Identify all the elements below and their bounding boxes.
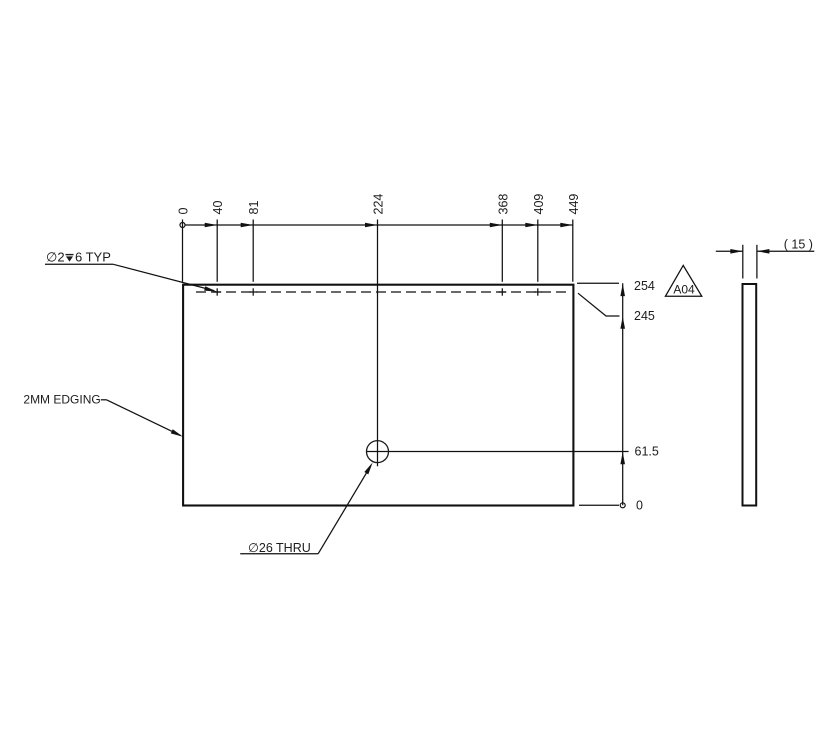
0 reference line — [579, 504, 619, 506]
hole cross at 81 — [249, 288, 257, 295]
arrow at 245 — [620, 316, 625, 329]
extension line / hole centerline 224 — [377, 220, 379, 467]
extension line 409 — [537, 220, 539, 282]
254 reference line — [577, 282, 619, 284]
side thickness dim line left — [716, 250, 743, 252]
arrow at 254 — [620, 284, 625, 297]
top ordinate dimension line — [185, 224, 573, 226]
arrow at 40 — [205, 223, 218, 228]
arrow thickness left — [730, 249, 743, 254]
dashed hole centerline — [196, 291, 567, 293]
ordinate origin circle — [180, 223, 185, 228]
extension line 449 — [572, 220, 574, 282]
svg-text:( 15 ): ( 15 ) — [784, 238, 813, 252]
svg-text:368: 368 — [496, 194, 510, 215]
datum triangle A04 — [665, 265, 701, 296]
right ordinate dimension line — [622, 283, 624, 505]
svg-text:∅2: ∅2 — [46, 250, 65, 265]
leader label 2MM EDGING — [23, 393, 184, 439]
extension line 368 — [501, 220, 503, 282]
extension line 0 — [182, 220, 184, 282]
arrow at 409 — [525, 223, 538, 228]
svg-text:449: 449 — [567, 194, 581, 215]
arrow at 61.5 — [620, 452, 625, 465]
panel front view outline — [183, 285, 573, 506]
arrow at 368 — [490, 223, 503, 228]
svg-text:224: 224 — [372, 194, 386, 215]
hole cross at 409 — [534, 288, 542, 295]
hole D26 circle — [367, 441, 389, 463]
svg-text:61.5: 61.5 — [635, 444, 659, 458]
right ordinate origin circle — [620, 503, 625, 508]
panel side view outline — [743, 284, 757, 506]
arrow at 224 — [365, 223, 378, 228]
svg-text:254: 254 — [634, 279, 655, 293]
svg-text:∅26 THRU: ∅26 THRU — [248, 541, 311, 555]
svg-text:245: 245 — [634, 309, 655, 323]
arrow at 81 — [241, 223, 254, 228]
svg-text:40: 40 — [211, 201, 225, 215]
side thickness dim line right — [757, 250, 814, 252]
svg-text:81: 81 — [247, 201, 261, 215]
extension line 40 — [216, 220, 218, 282]
svg-text:A04: A04 — [673, 282, 695, 296]
side thickness extension line right — [756, 245, 758, 279]
61.5 reference line / hole horizontal centerline — [366, 451, 629, 453]
leader label D2 depth 6 TYP — [45, 250, 217, 294]
hole cross at 40 — [213, 288, 221, 295]
side thickness extension line left — [742, 245, 744, 279]
svg-text:0: 0 — [177, 208, 191, 215]
245 jogged reference line — [578, 293, 620, 316]
svg-text:2MM EDGING: 2MM EDGING — [23, 393, 100, 407]
extension line 81 — [252, 220, 254, 282]
arrow at 449 — [560, 223, 573, 228]
svg-text:409: 409 — [532, 194, 546, 215]
svg-text:0: 0 — [636, 499, 643, 513]
hole cross at 368 — [498, 288, 506, 295]
svg-text:6 TYP: 6 TYP — [75, 250, 111, 265]
leader label D26 THRU — [240, 461, 374, 555]
arrow thickness right — [757, 249, 770, 254]
